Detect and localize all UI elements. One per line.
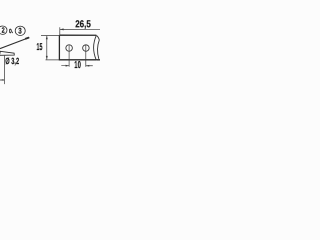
svg-text:3: 3 [18,26,22,35]
svg-text:26,5: 26,5 [75,19,91,30]
second break curve (right edge) [98,40,100,59]
dimension 10 [61,45,93,71]
hole 1 [66,45,73,52]
continuation edge after break [97,36,100,40]
hole 2 [83,45,90,52]
svg-text:10: 10 [74,60,81,71]
center line below wedge [3,56,5,85]
bent arm (side view diagonal) [0,37,29,48]
balloon 2 [0,26,7,35]
balloon 3 [15,26,25,35]
break line [94,35,97,60]
wedge base (side view) [0,51,14,55]
svg-text:15: 15 [36,42,42,53]
dimension 15 [36,35,59,59]
part outline (top view) [59,35,96,60]
svg-text:o.: o. [9,26,13,35]
svg-text:Ø 3,2: Ø 3,2 [5,56,19,66]
arrow tick at left edge [0,79,4,81]
svg-text:2: 2 [2,26,5,35]
dimension 26,5 [60,19,100,34]
